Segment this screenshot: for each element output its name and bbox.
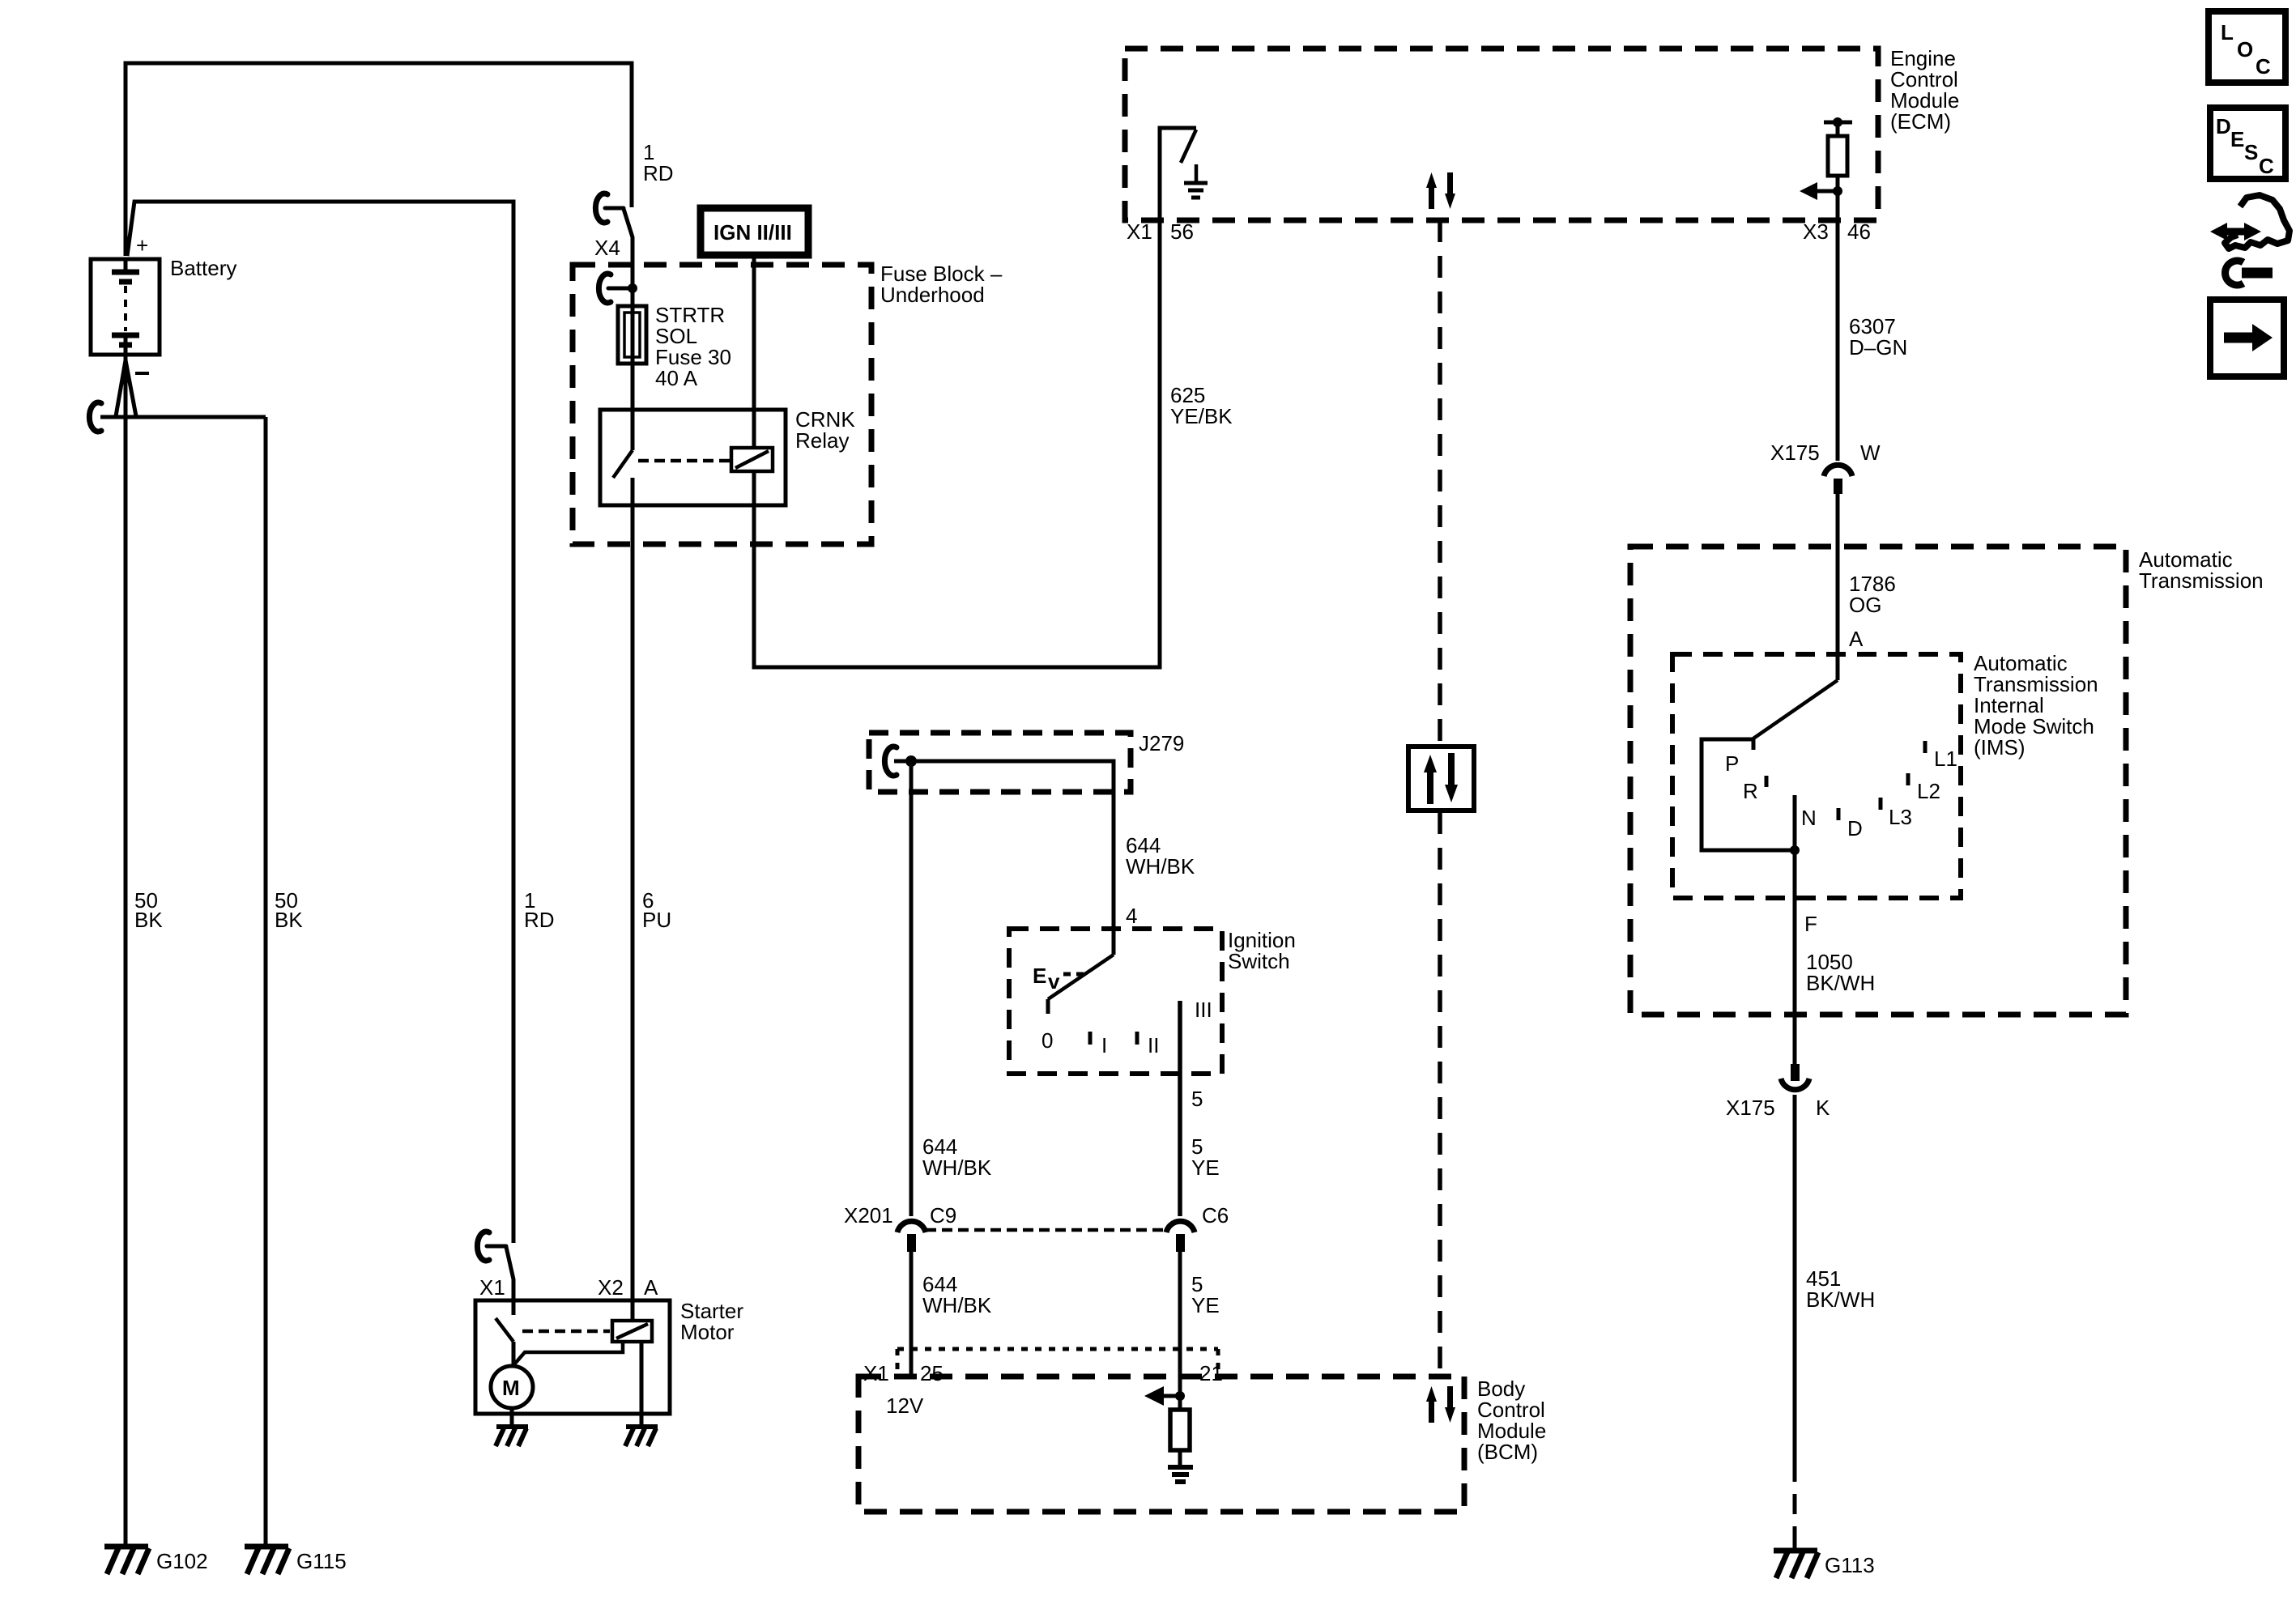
- label X4: [594, 236, 620, 260]
- svg-text:W: W: [1860, 440, 1881, 465]
- connector X175 K: [1791, 1064, 1800, 1081]
- labels X3 46: [1803, 219, 1871, 244]
- ground G115: [245, 1547, 289, 1574]
- ground below motor: [496, 1427, 528, 1446]
- svg-text:Underhood: Underhood: [880, 283, 985, 307]
- svg-text:A: A: [1849, 627, 1864, 651]
- starter solenoid coil: [612, 1321, 652, 1342]
- wire 451 BK/WH: [1793, 1095, 1797, 1462]
- IMS N contact: [1793, 795, 1797, 850]
- IMS dashed box: [1672, 654, 1961, 898]
- svg-text:G115: G115: [296, 1549, 347, 1573]
- connector X1 grip at starter: [477, 1232, 513, 1279]
- svg-text:BK: BK: [275, 908, 303, 932]
- relay mechanical link: [638, 459, 730, 463]
- wire IMS F output: [1793, 850, 1797, 1064]
- J279 grip: [884, 747, 897, 776]
- svg-text:X3: X3: [1803, 219, 1829, 244]
- starter mechanical link: [522, 1330, 610, 1334]
- IGN II/III source box: [701, 208, 808, 255]
- automatic transmission dashed box: [1630, 547, 2126, 1015]
- svg-text:WH/BK: WH/BK: [922, 1155, 992, 1180]
- relay label: [795, 407, 855, 453]
- battery minus label: [135, 372, 149, 375]
- wire J279 to ignition switch pin 4: [911, 761, 1114, 955]
- battery: [91, 259, 160, 355]
- label 644 WH/BK mid: [922, 1134, 992, 1180]
- ignition switch label: [1228, 928, 1296, 973]
- wire to G115: [264, 417, 268, 1545]
- svg-text:Relay: Relay: [795, 428, 849, 453]
- svg-text:III: III: [1195, 998, 1212, 1022]
- svg-text:5: 5: [1191, 1087, 1203, 1111]
- fuse block underhood dashed box: [573, 265, 871, 544]
- svg-text:YE: YE: [1191, 1293, 1220, 1317]
- ECM internal B+ bar: [1824, 121, 1852, 125]
- ignition lock glyph: [1033, 964, 1060, 994]
- wire C9 to BCM pin 25: [909, 1252, 914, 1377]
- label pin A: [1849, 627, 1864, 651]
- svg-text:L3: L3: [1889, 805, 1912, 829]
- X201 inline link dashed: [926, 1228, 1166, 1232]
- svg-text:25: 25: [920, 1361, 944, 1385]
- icon hand with arrow: [2225, 195, 2290, 249]
- svg-text:X4: X4: [594, 236, 620, 260]
- ECM label: [1890, 46, 1959, 134]
- label pin 5: [1191, 1087, 1203, 1111]
- wire splice horizontal run: [100, 415, 266, 419]
- starter switch: [512, 1301, 516, 1315]
- serial data gateway box: [1408, 747, 1474, 811]
- svg-text:II: II: [1148, 1033, 1159, 1057]
- svg-text:(IMS): (IMS): [1974, 735, 2026, 760]
- svg-text:X201: X201: [844, 1203, 893, 1228]
- svg-text:RD: RD: [643, 161, 674, 185]
- svg-text:Motor: Motor: [680, 1320, 735, 1344]
- svg-text:I: I: [1101, 1033, 1107, 1057]
- wire X175 W into transmission: [1836, 494, 1840, 680]
- svg-text:YE/BK: YE/BK: [1170, 404, 1233, 428]
- label 625 YE/BK: [1170, 383, 1233, 428]
- wire relay switch down to starter (6 PU): [631, 478, 635, 1321]
- svg-text:L1: L1: [1934, 747, 1957, 771]
- svg-text:X175: X175: [1726, 1096, 1775, 1120]
- connector X4 grip: [595, 194, 633, 237]
- starter label: [680, 1299, 743, 1344]
- position II tick: [1135, 1032, 1139, 1045]
- svg-text:D: D: [2216, 114, 2231, 138]
- labels X1 56: [1127, 219, 1194, 244]
- label pin 4: [1126, 904, 1137, 928]
- svg-text:21: 21: [1199, 1361, 1223, 1385]
- svg-text:C6: C6: [1202, 1203, 1229, 1228]
- svg-text:E: E: [1033, 964, 1046, 988]
- svg-text:PU: PU: [642, 908, 671, 932]
- CRNK relay box: [600, 410, 786, 505]
- battery plus label: [136, 233, 148, 257]
- ECM internal ground: [1195, 164, 1199, 181]
- serial data arrows in ECM: [1426, 172, 1455, 209]
- label 1050 BK/WH: [1806, 950, 1875, 995]
- IMS L2 contact: [1906, 773, 1910, 785]
- labels X201 C9 C6: [844, 1203, 1229, 1228]
- svg-text:Transmission: Transmission: [2139, 568, 2264, 593]
- svg-text:WH/BK: WH/BK: [1126, 854, 1195, 879]
- relay coil: [731, 448, 773, 471]
- svg-text:P: P: [1725, 751, 1739, 776]
- label 6307 D-GN: [1849, 314, 1907, 360]
- svg-text:IGN II/III: IGN II/III: [714, 220, 792, 245]
- relay switch: [613, 450, 633, 478]
- svg-text:A: A: [644, 1275, 658, 1300]
- battery name label: [170, 256, 236, 280]
- position III label: [1195, 998, 1212, 1022]
- svg-text:C: C: [2256, 54, 2271, 79]
- J279 dashed box: [869, 733, 1131, 792]
- IMS R contact: [1765, 776, 1769, 787]
- icon DESC: [2210, 108, 2285, 179]
- ECM dashed box: [1125, 49, 1878, 220]
- IMS label: [1974, 651, 2098, 760]
- svg-text:O: O: [2237, 37, 2253, 62]
- svg-text:BK/WH: BK/WH: [1806, 971, 1875, 995]
- wire relay coil to ECM pin 56: [754, 220, 1160, 667]
- svg-text:R: R: [1743, 779, 1758, 803]
- label 1 RD mid: [524, 888, 555, 932]
- ECM output arrow: [1816, 189, 1838, 194]
- wire C6 to BCM pin 21: [1178, 1252, 1182, 1396]
- battery negative splice V: [116, 360, 126, 416]
- svg-text:46: 46: [1847, 219, 1871, 244]
- BCM internal ground: [1168, 1467, 1193, 1482]
- wire battery positive to top run and down to X4: [126, 63, 632, 256]
- wire 1 RD label top: [643, 140, 674, 185]
- svg-text:4: 4: [1126, 904, 1137, 928]
- ignition switch dashed box: [1009, 929, 1222, 1074]
- svg-text:C: C: [2259, 154, 2274, 178]
- serial data arrows in BCM: [1426, 1386, 1455, 1423]
- connector X175 W: [1824, 465, 1852, 476]
- svg-text:(ECM): (ECM): [1890, 109, 1951, 134]
- label 644 WH/BK upper: [1126, 833, 1195, 879]
- svg-text:G113: G113: [1825, 1553, 1875, 1577]
- connector X201 C6: [1166, 1221, 1195, 1232]
- svg-text:X175: X175: [1770, 440, 1820, 465]
- serial data dashed wire lower: [1438, 812, 1442, 1377]
- labels X1 25 21 at BCM: [863, 1361, 1223, 1385]
- ECM driver switch pin 56: [1160, 128, 1196, 220]
- ignition III contact wire to pin 5: [1178, 1001, 1182, 1216]
- svg-text:40 A: 40 A: [655, 366, 698, 390]
- position 0 label: [1042, 1028, 1053, 1053]
- transmission label: [2139, 547, 2264, 593]
- serial data dashed wire upper: [1438, 220, 1442, 745]
- BCM connector bracket dotted: [897, 1349, 1218, 1377]
- IMS wiper arm: [1753, 680, 1838, 738]
- wire ECM 46 down to X175 W (6307 D-GN): [1836, 220, 1840, 461]
- svg-text:C9: C9: [930, 1203, 956, 1228]
- svg-text:X1: X1: [479, 1275, 505, 1300]
- svg-text:+: +: [136, 233, 148, 257]
- IMS P contact: [1752, 738, 1756, 750]
- BCM input arrow: [1163, 1394, 1180, 1398]
- svg-text:RD: RD: [524, 908, 555, 932]
- wire motor to ground: [510, 1408, 514, 1425]
- svg-text:0: 0: [1042, 1028, 1053, 1053]
- svg-text:Switch: Switch: [1228, 949, 1290, 973]
- svg-text:BK: BK: [134, 908, 163, 932]
- svg-text:G102: G102: [156, 1549, 208, 1573]
- label 50 BK left: [134, 888, 163, 932]
- wire battery positive second run to starter X1 (1 RD): [127, 202, 513, 1243]
- svg-text:X1: X1: [863, 1361, 889, 1385]
- svg-text:D: D: [1847, 816, 1863, 840]
- IMS D contact: [1837, 808, 1841, 820]
- svg-text:YE: YE: [1191, 1155, 1220, 1180]
- icon next arrow box: [2210, 300, 2284, 377]
- label X1 starter: [479, 1275, 505, 1300]
- starter motor box: [475, 1300, 670, 1414]
- svg-text:Battery: Battery: [170, 256, 236, 280]
- svg-text:S: S: [2244, 140, 2258, 164]
- BCM label: [1477, 1377, 1546, 1464]
- splice grip: [89, 402, 101, 432]
- icon wrench: [2226, 261, 2243, 285]
- BCM pulldown resistor: [1178, 1396, 1182, 1410]
- svg-text:F: F: [1804, 912, 1817, 936]
- label 451 BK/WH: [1806, 1266, 1875, 1312]
- svg-text:N: N: [1801, 806, 1817, 830]
- wire IGN II/III to relay coil: [752, 255, 756, 448]
- labels X2 A: [598, 1275, 658, 1300]
- svg-text:56: 56: [1170, 219, 1194, 244]
- fuse STRTR SOL Fuse 30 40A: [618, 306, 646, 364]
- position I tick: [1088, 1032, 1093, 1045]
- fuse block label: [880, 262, 1003, 307]
- wire solenoid to ground: [640, 1342, 644, 1425]
- svg-text:WH/BK: WH/BK: [922, 1293, 992, 1317]
- ground G102: [104, 1547, 149, 1574]
- wire solenoid to motor: [513, 1342, 623, 1365]
- IMS L3 contact: [1879, 798, 1883, 810]
- ignition switch arm: [1048, 955, 1114, 999]
- svg-text:J279: J279: [1139, 731, 1184, 755]
- node J279 splice: [905, 755, 917, 767]
- label 50 BK right: [275, 888, 303, 932]
- svg-text:K: K: [1816, 1096, 1830, 1120]
- ECM pullup resistor: [1836, 122, 1840, 136]
- svg-text:E: E: [2230, 127, 2244, 151]
- svg-text:BK/WH: BK/WH: [1806, 1287, 1875, 1312]
- IMS P to N link wire: [1702, 739, 1795, 850]
- label 5 YE upper: [1191, 1134, 1220, 1180]
- junction node below X4: [598, 274, 628, 303]
- label 1786 OG: [1849, 572, 1896, 617]
- svg-text:M: M: [502, 1376, 520, 1400]
- label 6 PU: [642, 888, 671, 932]
- wire X4 into fuse block: [631, 237, 635, 450]
- svg-text:OG: OG: [1849, 593, 1881, 617]
- label F: [1804, 912, 1817, 936]
- wire J279 branch down to X201 C9: [909, 761, 914, 1216]
- svg-text:X2: X2: [598, 1275, 624, 1300]
- label 5 YE lower: [1191, 1272, 1220, 1317]
- wire dashed tail to G113: [1793, 1462, 1797, 1534]
- svg-text:D–GN: D–GN: [1849, 335, 1907, 360]
- connector X201 C9: [897, 1221, 926, 1232]
- svg-text:L2: L2: [1917, 779, 1940, 803]
- svg-text:12V: 12V: [886, 1394, 924, 1418]
- wire battery negative to G102: [124, 355, 128, 1545]
- svg-text:(BCM): (BCM): [1477, 1440, 1538, 1464]
- ground below solenoid: [625, 1427, 658, 1446]
- fuse label: [655, 303, 731, 390]
- svg-text:X1: X1: [1127, 219, 1152, 244]
- ground G113: [1793, 1534, 1797, 1549]
- motor M: [491, 1366, 533, 1408]
- svg-text:v: v: [1048, 969, 1060, 994]
- IMS L1 contact: [1923, 741, 1928, 753]
- BCM dashed box: [858, 1377, 1464, 1512]
- label 644 WH/BK lower: [922, 1272, 992, 1317]
- label 12V: [886, 1394, 924, 1418]
- svg-text:L: L: [2221, 20, 2234, 45]
- icon LOC: [2209, 11, 2285, 83]
